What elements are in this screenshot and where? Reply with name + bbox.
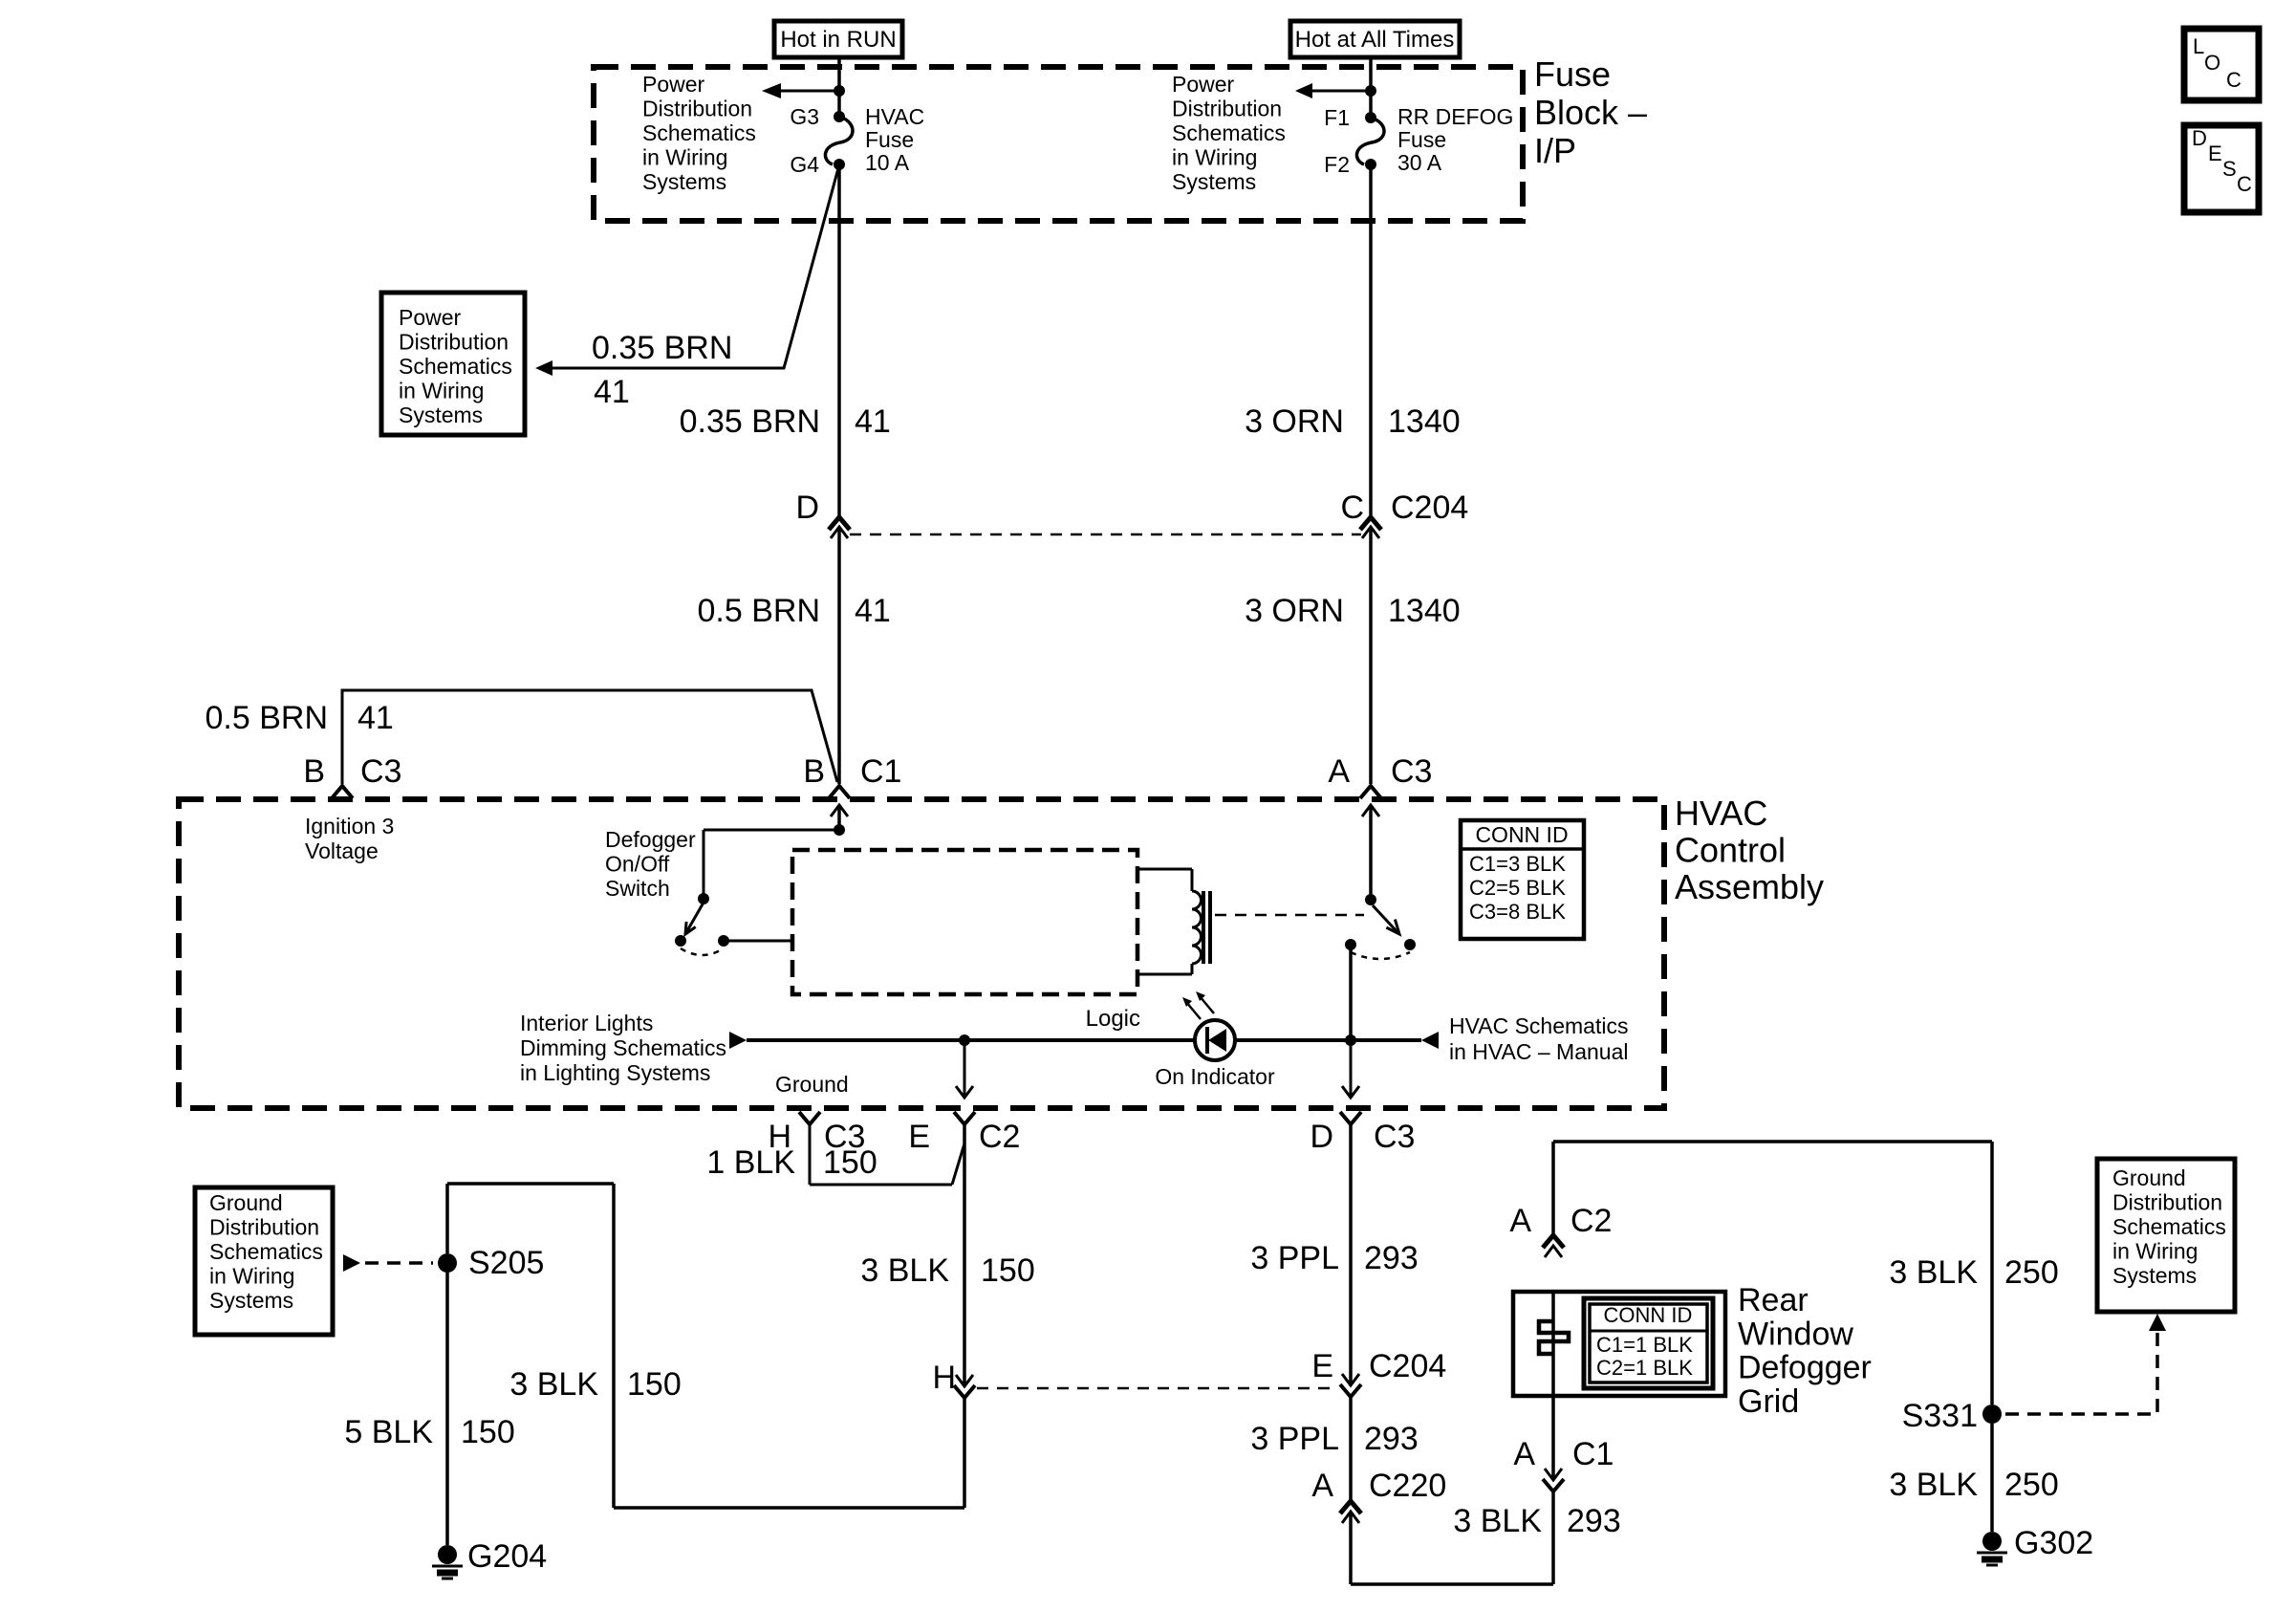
- connector H (in-line C204): [932, 1360, 975, 1398]
- svg-text:in Wiring: in Wiring: [642, 145, 727, 170]
- svg-text:A: A: [1311, 1468, 1333, 1504]
- svg-text:Systems: Systems: [1172, 169, 1256, 194]
- node Interior Lights Dimming Schematics: [520, 1011, 726, 1085]
- wire Hot in RUN feed: [834, 57, 845, 117]
- svg-text:Distribution: Distribution: [209, 1215, 319, 1240]
- splice S205: [438, 1245, 544, 1281]
- connector C220 pin A: [1311, 1468, 1446, 1523]
- svg-text:30 A: 30 A: [1397, 150, 1442, 175]
- wire branch tap 0.35 BRN 41 to Power Distribution: [535, 168, 838, 410]
- CONN ID table (HVAC control): [1461, 820, 1584, 939]
- svg-text:C3=8 BLK: C3=8 BLK: [1469, 900, 1566, 924]
- svg-text:3 ORN: 3 ORN: [1245, 403, 1344, 440]
- svg-text:41: 41: [594, 374, 630, 410]
- svg-text:Defogger: Defogger: [605, 827, 696, 852]
- svg-text:0.5 BRN: 0.5 BRN: [698, 593, 821, 629]
- svg-text:Power: Power: [1172, 72, 1235, 97]
- svg-text:41: 41: [357, 700, 394, 736]
- svg-text:3 PPL: 3 PPL: [1250, 1240, 1339, 1276]
- svg-text:Interior Lights: Interior Lights: [520, 1011, 653, 1035]
- svg-text:150: 150: [823, 1144, 877, 1181]
- svg-text:I/P: I/P: [1534, 131, 1576, 170]
- svg-text:Control: Control: [1675, 831, 1786, 870]
- wire Hot at All Times feed: [1365, 57, 1376, 118]
- svg-text:C: C: [1340, 490, 1364, 526]
- wire 3 PPL 293 (D C3 down): [1250, 1124, 1418, 1383]
- svg-text:41: 41: [855, 593, 891, 629]
- svg-text:3 BLK: 3 BLK: [860, 1252, 949, 1289]
- svg-text:in Wiring: in Wiring: [209, 1264, 294, 1289]
- node Power Distribution Schematics (left fuse): [642, 72, 756, 194]
- svg-text:in HVAC – Manual: in HVAC – Manual: [1449, 1039, 1629, 1064]
- svg-text:Window: Window: [1738, 1316, 1853, 1352]
- svg-text:C: C: [2226, 68, 2242, 92]
- svg-text:Distribution: Distribution: [1172, 97, 1282, 121]
- svg-text:D: D: [795, 490, 819, 526]
- svg-text:CONN ID: CONN ID: [1475, 822, 1568, 847]
- node Power Distribution Schematics box (tap destination): [381, 293, 525, 435]
- svg-text:in Lighting Systems: in Lighting Systems: [520, 1060, 710, 1085]
- wire 0.5 BRN 41 branch to Ignition 3 Voltage: [206, 690, 838, 784]
- svg-text:Schematics: Schematics: [2112, 1214, 2226, 1239]
- wire arrow to Power Distribution (left): [762, 83, 839, 98]
- svg-text:Voltage: Voltage: [305, 838, 379, 863]
- HVAC Control Assembly dashed enclosure: [179, 794, 1824, 1108]
- connector C204 pin C: [1340, 490, 1468, 538]
- wire 3 ORN 1340 (fuse F2 to C204): [1245, 164, 1461, 515]
- svg-text:250: 250: [2004, 1467, 2059, 1503]
- connector pin H C3 (control ground): [768, 1112, 865, 1155]
- wire interior lights dimming bus: [729, 1032, 1439, 1049]
- svg-text:Block –: Block –: [1534, 93, 1647, 132]
- svg-text:On Indicator: On Indicator: [1155, 1064, 1275, 1089]
- svg-text:L: L: [2193, 34, 2204, 58]
- svg-text:Assembly: Assembly: [1675, 867, 1824, 906]
- node Ground Distribution Schematics (left): [195, 1187, 333, 1335]
- svg-text:C2: C2: [1570, 1203, 1612, 1239]
- svg-text:in Wiring: in Wiring: [1172, 145, 1257, 170]
- fuse HVAC Fuse 10A: [790, 104, 924, 177]
- connector pin D C3: [1310, 1040, 1415, 1155]
- svg-text:C3: C3: [1374, 1119, 1415, 1155]
- svg-text:E: E: [1311, 1348, 1333, 1384]
- svg-text:C220: C220: [1369, 1468, 1446, 1504]
- svg-text:5 BLK: 5 BLK: [344, 1414, 433, 1450]
- svg-text:Distribution: Distribution: [399, 330, 509, 355]
- wire 3 BLK 250 (grid C2 to S331): [1553, 1142, 2059, 1404]
- svg-text:C2=1 BLK: C2=1 BLK: [1596, 1356, 1693, 1380]
- LED On Indicator: [1155, 991, 1275, 1089]
- connector grid pin A C2: [1509, 1203, 1612, 1257]
- svg-text:Schematics: Schematics: [209, 1239, 323, 1264]
- wire dashed relay actuation link: [1215, 914, 1364, 917]
- rear window defogger grid element: [1513, 1292, 1725, 1479]
- svg-text:Systems: Systems: [642, 169, 726, 194]
- wire arrow to Power Distribution (right): [1295, 83, 1371, 98]
- wire 3 BLK 150 (to S205): [447, 1184, 964, 1508]
- svg-text:Switch: Switch: [605, 876, 670, 901]
- svg-text:C2=5 BLK: C2=5 BLK: [1469, 876, 1566, 900]
- svg-text:293: 293: [1567, 1503, 1621, 1539]
- svg-text:HVAC: HVAC: [1675, 794, 1767, 833]
- svg-text:Logic: Logic: [1086, 1006, 1140, 1032]
- wire 1 BLK 150 (H C3 jumper): [706, 1124, 964, 1185]
- svg-text:Systems: Systems: [2112, 1263, 2197, 1288]
- node HVAC Schematics in HVAC Manual: [1449, 1013, 1629, 1064]
- svg-text:150: 150: [981, 1252, 1035, 1289]
- svg-text:On/Off: On/Off: [605, 852, 670, 877]
- svg-text:HVAC Schematics: HVAC Schematics: [1449, 1013, 1628, 1038]
- svg-text:Schematics: Schematics: [642, 120, 756, 145]
- svg-text:B: B: [803, 753, 825, 790]
- wire 5 BLK 150 (S205 to G204): [344, 1273, 514, 1545]
- node Hot at All Times: [1290, 21, 1460, 57]
- svg-text:Schematics: Schematics: [1172, 120, 1286, 145]
- svg-text:RR DEFOG: RR DEFOG: [1397, 104, 1513, 129]
- wire 3 BLK 150 (E C2 down): [860, 1124, 1034, 1383]
- wire 3 BLK 250 (S331 to G302): [1889, 1424, 2058, 1532]
- svg-text:Fuse: Fuse: [1397, 127, 1446, 152]
- svg-text:A: A: [1328, 753, 1350, 790]
- ground G204: [432, 1538, 547, 1578]
- svg-text:G4: G4: [790, 152, 819, 177]
- svg-text:293: 293: [1364, 1421, 1419, 1457]
- splice S331: [1902, 1398, 2002, 1434]
- wire dashed S331 to Ground Distribution (right): [2005, 1314, 2166, 1414]
- relay coil: [1137, 869, 1210, 974]
- svg-text:C3: C3: [360, 753, 401, 790]
- svg-text:S: S: [2222, 157, 2237, 181]
- svg-text:Power: Power: [642, 72, 705, 97]
- svg-text:F1: F1: [1324, 105, 1350, 130]
- svg-text:250: 250: [2004, 1254, 2059, 1291]
- svg-text:S205: S205: [468, 1245, 544, 1281]
- svg-text:C: C: [2237, 172, 2252, 196]
- svg-text:CONN ID: CONN ID: [1604, 1303, 1693, 1327]
- svg-text:C1=3 BLK: C1=3 BLK: [1469, 852, 1566, 876]
- svg-text:B: B: [303, 753, 325, 790]
- svg-text:Rear: Rear: [1738, 1282, 1809, 1318]
- svg-text:G302: G302: [2014, 1525, 2093, 1561]
- svg-text:1340: 1340: [1388, 403, 1461, 440]
- ground G302: [1977, 1525, 2093, 1565]
- svg-text:C1=1 BLK: C1=1 BLK: [1596, 1333, 1693, 1357]
- svg-text:3 BLK: 3 BLK: [1889, 1467, 1978, 1503]
- svg-text:3 BLK: 3 BLK: [1453, 1503, 1542, 1539]
- node Rear Window Defogger Grid label: [1738, 1282, 1872, 1420]
- connector pin B C1: [803, 753, 901, 798]
- switch Defogger On/Off: [605, 805, 848, 955]
- svg-text:in Wiring: in Wiring: [2112, 1239, 2198, 1264]
- wire dashed to Ground Distribution: [343, 1254, 433, 1272]
- svg-text:3 BLK: 3 BLK: [509, 1366, 598, 1403]
- svg-text:E: E: [2208, 142, 2222, 165]
- svg-text:F2: F2: [1324, 152, 1350, 177]
- svg-text:1 BLK: 1 BLK: [706, 1144, 795, 1181]
- svg-text:Distribution: Distribution: [642, 97, 752, 121]
- svg-text:150: 150: [627, 1366, 682, 1403]
- svg-text:Defogger: Defogger: [1738, 1350, 1872, 1386]
- connector pin E C2: [908, 1040, 1020, 1155]
- svg-text:in Wiring: in Wiring: [399, 379, 484, 403]
- svg-text:Fuse: Fuse: [865, 127, 914, 152]
- relay switch contacts: [1345, 805, 1416, 1040]
- svg-text:Systems: Systems: [209, 1288, 293, 1313]
- svg-text:C2: C2: [979, 1119, 1020, 1155]
- svg-text:0.5 BRN: 0.5 BRN: [206, 700, 329, 736]
- wire 0.35 BRN 41 (fuse G4 to C204): [680, 164, 891, 515]
- svg-text:C3: C3: [1391, 753, 1432, 790]
- svg-text:3 BLK: 3 BLK: [1889, 1254, 1978, 1291]
- svg-text:Hot in RUN: Hot in RUN: [780, 27, 896, 53]
- svg-text:1340: 1340: [1388, 593, 1461, 629]
- svg-text:Fuse: Fuse: [1534, 54, 1611, 94]
- connector pin B C3 (ignition feed): [303, 753, 401, 863]
- CONN ID table (defogger grid): [1584, 1298, 1713, 1388]
- svg-text:Grid: Grid: [1738, 1383, 1799, 1420]
- connector grid pin A C1: [1513, 1436, 1614, 1491]
- svg-text:G3: G3: [790, 104, 819, 129]
- svg-text:C204: C204: [1391, 490, 1468, 526]
- svg-text:Hot at All Times: Hot at All Times: [1295, 27, 1455, 53]
- svg-text:C1: C1: [860, 753, 901, 790]
- svg-text:Ground: Ground: [209, 1190, 283, 1215]
- svg-text:A: A: [1513, 1436, 1535, 1472]
- connector C204 pin D: [795, 490, 850, 538]
- wire 0.5 BRN 41 (C204 to HVAC control B C1): [698, 527, 891, 784]
- svg-text:150: 150: [461, 1414, 515, 1450]
- wire dashed connector link C204: [850, 533, 1361, 536]
- svg-text:H: H: [932, 1360, 956, 1396]
- svg-text:D: D: [1310, 1119, 1333, 1155]
- svg-text:Power: Power: [399, 305, 462, 330]
- svg-text:41: 41: [855, 403, 891, 440]
- svg-text:HVAC: HVAC: [865, 104, 924, 129]
- svg-text:Distribution: Distribution: [2112, 1190, 2222, 1215]
- wire dashed connector link H to E C204: [977, 1387, 1338, 1390]
- wire 3 BLK 293 (C220 to grid C1): [1351, 1492, 1621, 1584]
- fuse RR DEFOG Fuse 30A: [1324, 104, 1513, 177]
- svg-text:O: O: [2204, 51, 2220, 75]
- svg-text:S331: S331: [1902, 1398, 1978, 1434]
- connector C204 pin E: [1311, 1348, 1446, 1397]
- svg-text:3 PPL: 3 PPL: [1250, 1421, 1339, 1457]
- svg-text:0.35 BRN: 0.35 BRN: [680, 403, 820, 440]
- svg-text:E: E: [908, 1119, 930, 1155]
- svg-text:A: A: [1509, 1203, 1531, 1239]
- svg-text:Systems: Systems: [399, 403, 483, 427]
- svg-text:10 A: 10 A: [865, 150, 910, 175]
- logic module dashed box: [792, 850, 1140, 1032]
- node Ground Distribution Schematics (right): [2097, 1159, 2235, 1312]
- wire 3 ORN 1340 (C204 to HVAC control A C3): [1245, 527, 1461, 784]
- svg-text:D: D: [2192, 126, 2207, 150]
- svg-text:0.35 BRN: 0.35 BRN: [592, 330, 732, 366]
- svg-text:C204: C204: [1369, 1348, 1446, 1384]
- svg-text:293: 293: [1364, 1240, 1419, 1276]
- fuse block I/P dashed enclosure: [594, 54, 1647, 221]
- node Hot in RUN: [774, 21, 902, 57]
- svg-text:G204: G204: [467, 1538, 547, 1575]
- svg-text:Schematics: Schematics: [399, 354, 512, 379]
- svg-text:C1: C1: [1572, 1436, 1614, 1472]
- svg-text:Dimming Schematics: Dimming Schematics: [520, 1035, 726, 1060]
- svg-text:Ground: Ground: [2112, 1165, 2186, 1190]
- connector pin A C3: [1328, 753, 1432, 798]
- LOC legend box: [2184, 29, 2259, 100]
- svg-text:Ground: Ground: [775, 1072, 849, 1097]
- svg-text:Ignition 3: Ignition 3: [305, 814, 394, 838]
- DESC legend box: [2184, 125, 2259, 212]
- wire 3 PPL 293 (C204 to C220): [1250, 1397, 1418, 1499]
- svg-text:3 ORN: 3 ORN: [1245, 593, 1344, 629]
- node Power Distribution Schematics (right fuse): [1172, 72, 1286, 194]
